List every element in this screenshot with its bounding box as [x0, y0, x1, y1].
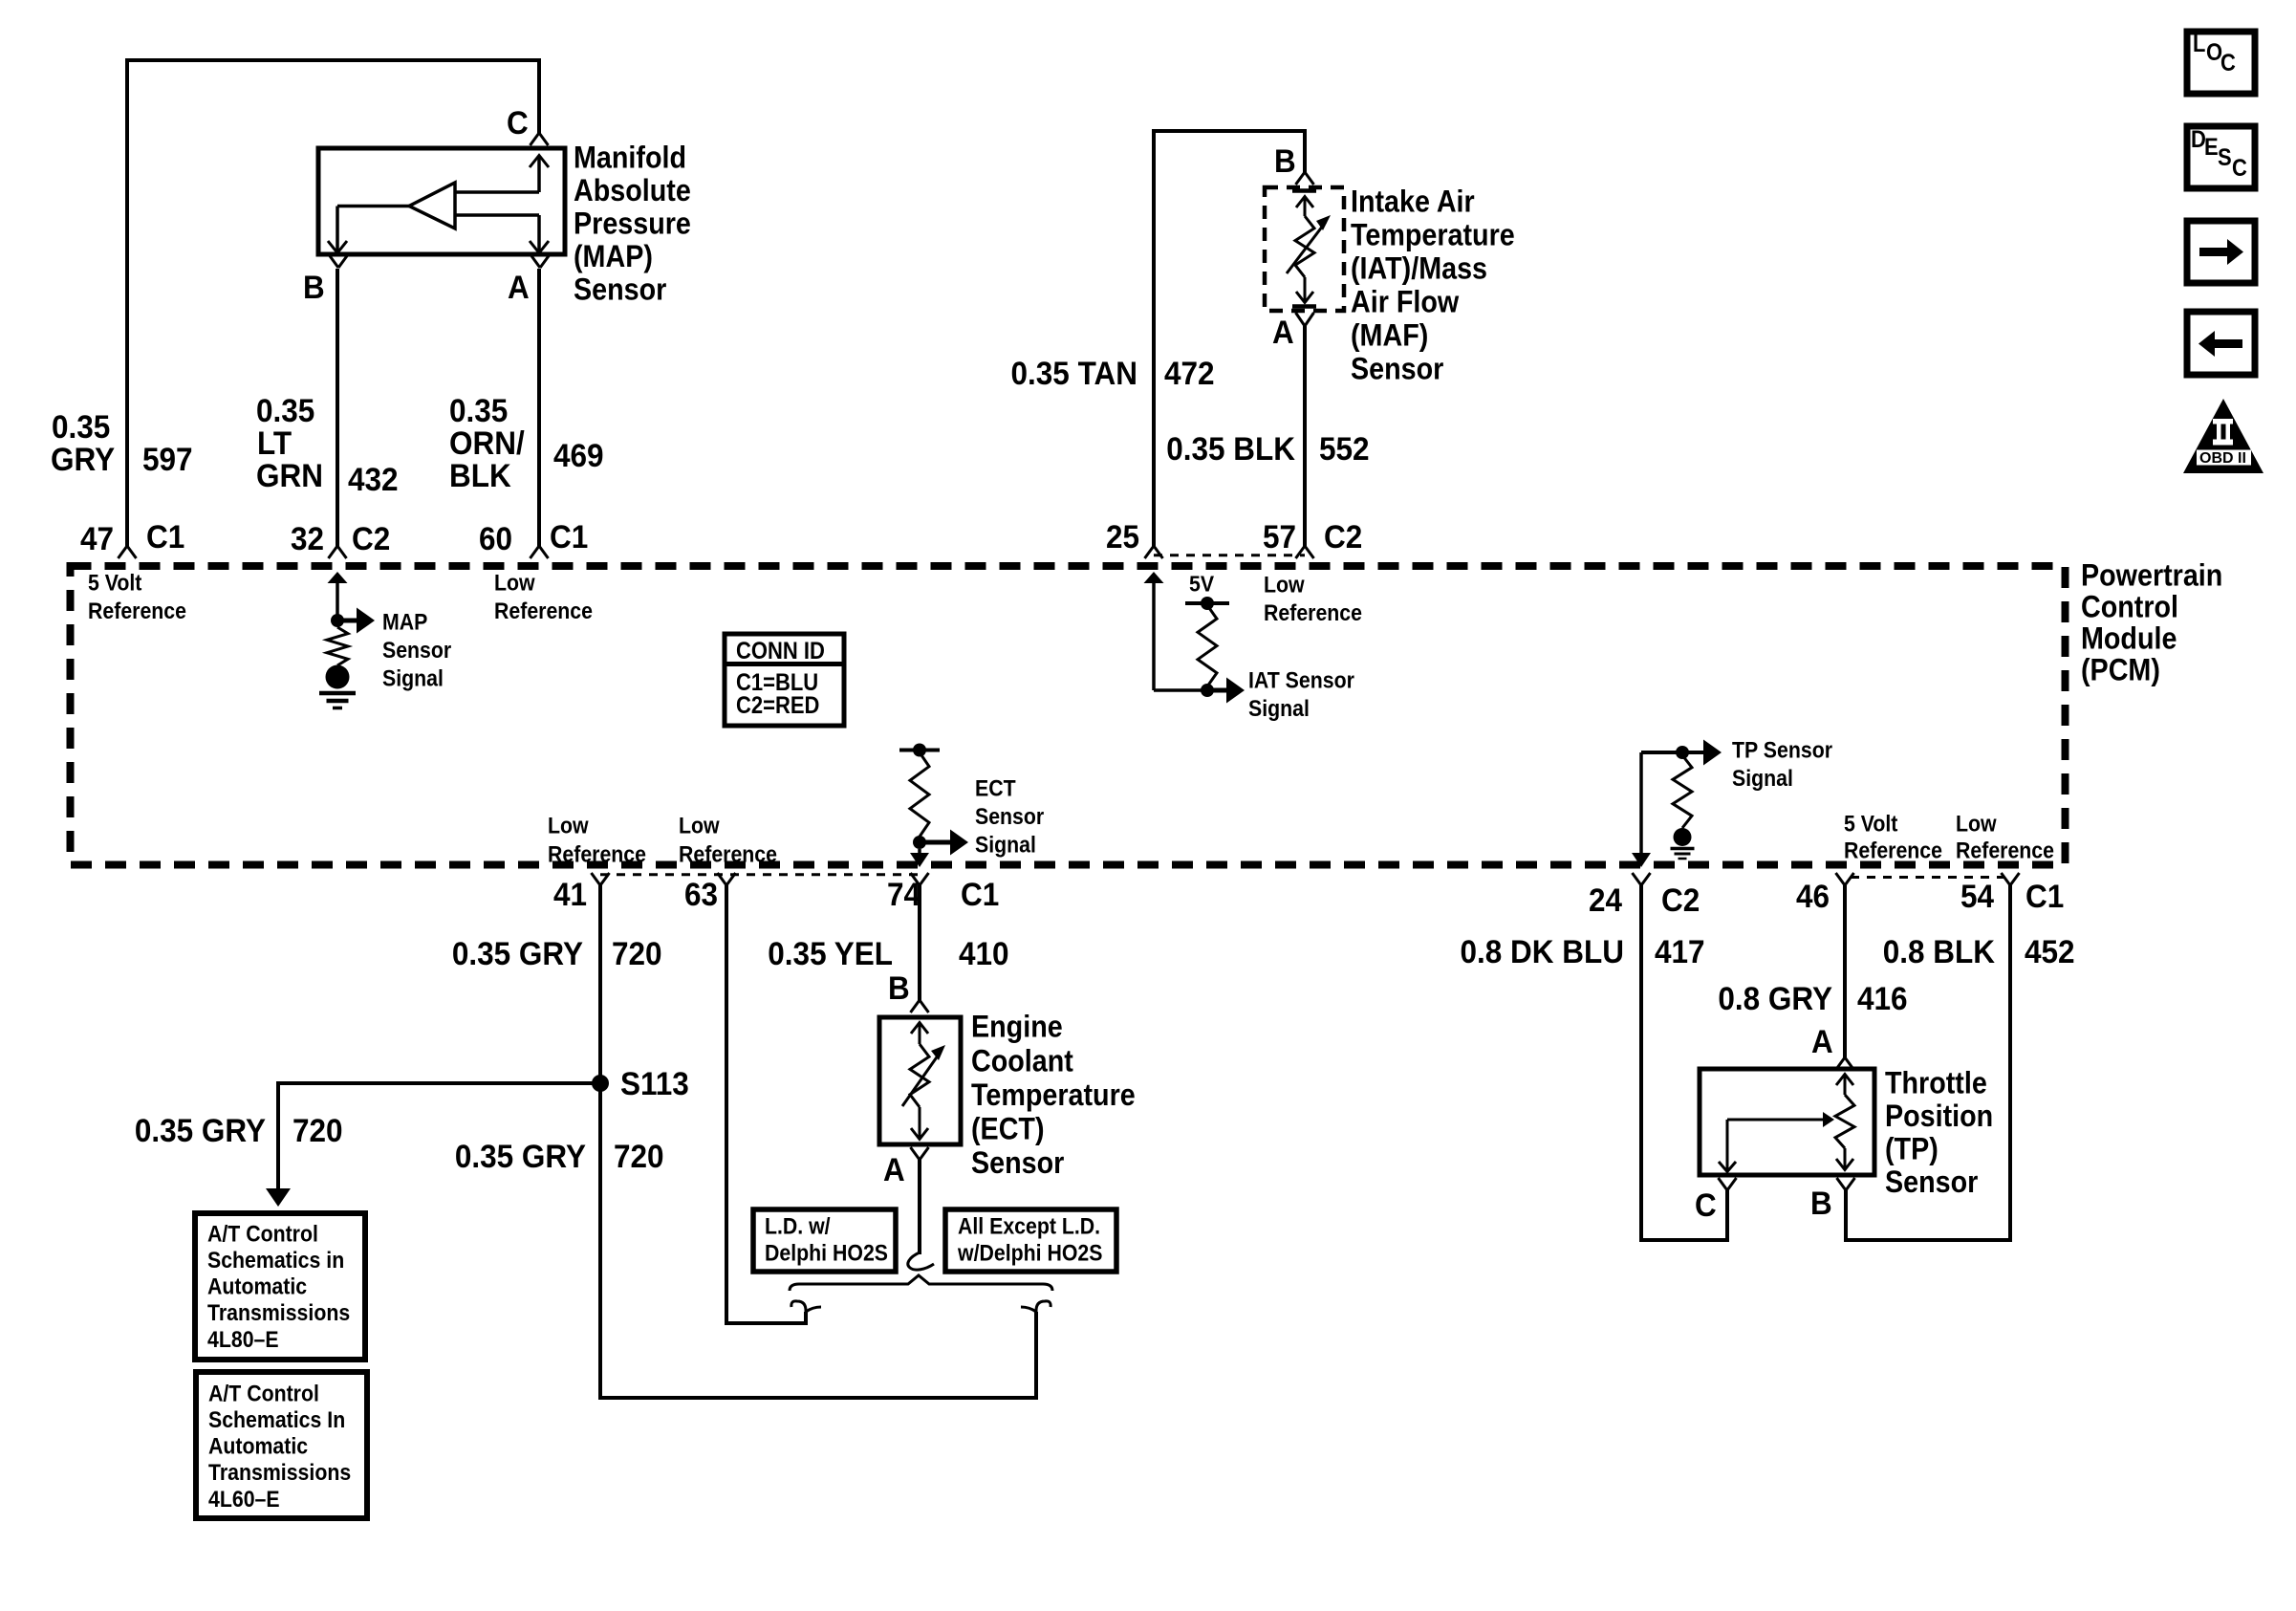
- svg-text:B: B: [303, 270, 325, 306]
- svg-text:60: 60: [479, 521, 512, 557]
- svg-text:469: 469: [553, 438, 604, 474]
- svg-text:C: C: [507, 105, 529, 142]
- svg-text:Low: Low: [679, 813, 720, 838]
- svg-text:Signal: Signal: [1732, 766, 1793, 792]
- svg-text:Engine: Engine: [971, 1010, 1063, 1044]
- svg-text:Air Flow: Air Flow: [1351, 285, 1459, 319]
- svg-text:C2: C2: [352, 521, 390, 557]
- svg-text:46: 46: [1796, 879, 1830, 915]
- svg-text:C: C: [1695, 1187, 1717, 1224]
- svg-text:432: 432: [348, 462, 399, 498]
- svg-text:(TP): (TP): [1885, 1132, 1939, 1166]
- svg-text:57: 57: [1263, 519, 1296, 555]
- svg-text:Low: Low: [548, 813, 589, 838]
- svg-text:5 Volt: 5 Volt: [1844, 811, 1897, 837]
- svg-text:0.35 BLK: 0.35 BLK: [1166, 431, 1295, 468]
- svg-text:BLK: BLK: [449, 458, 511, 494]
- svg-text:Signal: Signal: [975, 832, 1036, 858]
- svg-text:0.8 GRY: 0.8 GRY: [1718, 981, 1832, 1017]
- svg-text:Coolant: Coolant: [971, 1043, 1073, 1078]
- svg-text:C1: C1: [550, 519, 588, 555]
- svg-text:C2: C2: [1324, 519, 1362, 555]
- svg-text:552: 552: [1319, 431, 1370, 468]
- svg-text:0.35 GRY: 0.35 GRY: [135, 1113, 266, 1149]
- svg-text:C1: C1: [961, 877, 999, 913]
- svg-text:Reference: Reference: [1844, 838, 1942, 863]
- svg-text:0.8 DK BLU: 0.8 DK BLU: [1461, 934, 1625, 970]
- svg-text:Pressure: Pressure: [574, 207, 691, 241]
- svg-text:Throttle: Throttle: [1885, 1066, 1987, 1100]
- svg-text:Position: Position: [1885, 1099, 1993, 1133]
- svg-text:A/T Control: A/T Control: [207, 1221, 318, 1247]
- svg-text:Intake Air: Intake Air: [1351, 185, 1475, 219]
- svg-text:Temperature: Temperature: [971, 1078, 1136, 1112]
- svg-text:LT: LT: [257, 425, 292, 462]
- svg-text:S113: S113: [620, 1066, 689, 1102]
- svg-text:0.35 GRY: 0.35 GRY: [452, 936, 583, 972]
- svg-text:4L80–E: 4L80–E: [207, 1327, 279, 1353]
- svg-text:B: B: [1274, 143, 1296, 180]
- svg-text:720: 720: [612, 936, 662, 972]
- svg-text:OBD II: OBD II: [2199, 450, 2246, 467]
- svg-text:(MAP): (MAP): [574, 239, 653, 273]
- svg-text:0.8 BLK: 0.8 BLK: [1883, 934, 1996, 970]
- svg-text:Sensor: Sensor: [975, 804, 1045, 830]
- svg-text:0.35 TAN: 0.35 TAN: [1011, 356, 1138, 392]
- svg-text:74: 74: [887, 877, 921, 913]
- svg-text:41: 41: [553, 877, 587, 913]
- svg-text:MAP: MAP: [382, 609, 427, 635]
- svg-text:All Except L.D.: All Except L.D.: [958, 1213, 1100, 1239]
- svg-text:4L60–E: 4L60–E: [208, 1487, 280, 1513]
- svg-text:Control: Control: [2081, 590, 2178, 624]
- svg-text:TP Sensor: TP Sensor: [1732, 737, 1832, 763]
- svg-text:(IAT)/Mass: (IAT)/Mass: [1351, 251, 1487, 286]
- svg-text:Reference: Reference: [1264, 600, 1362, 626]
- svg-text:Reference: Reference: [1956, 838, 2054, 863]
- svg-text:A: A: [508, 270, 530, 306]
- svg-text:597: 597: [142, 442, 193, 478]
- svg-text:63: 63: [684, 877, 718, 913]
- svg-text:Automatic: Automatic: [207, 1274, 307, 1300]
- svg-text:GRN: GRN: [256, 458, 323, 494]
- svg-text:Temperature: Temperature: [1351, 218, 1515, 252]
- svg-text:Signal: Signal: [1248, 696, 1310, 722]
- svg-text:24: 24: [1589, 882, 1622, 919]
- svg-text:Sensor: Sensor: [1885, 1165, 1978, 1199]
- svg-text:C2=RED: C2=RED: [736, 692, 819, 719]
- svg-text:417: 417: [1655, 934, 1705, 970]
- svg-text:L.D. w/: L.D. w/: [765, 1213, 831, 1239]
- svg-text:54: 54: [1960, 879, 1994, 915]
- svg-text:Transmissions: Transmissions: [207, 1300, 350, 1326]
- svg-text:C1: C1: [2025, 879, 2064, 915]
- svg-text:32: 32: [291, 521, 324, 557]
- svg-text:B: B: [1810, 1186, 1832, 1222]
- svg-text:Signal: Signal: [382, 665, 444, 691]
- svg-text:IAT Sensor: IAT Sensor: [1248, 667, 1354, 693]
- svg-text:Sensor: Sensor: [1351, 352, 1443, 386]
- svg-text:5V: 5V: [1189, 571, 1215, 596]
- svg-text:410: 410: [959, 936, 1009, 972]
- svg-text:C1: C1: [146, 519, 184, 555]
- svg-text:720: 720: [292, 1113, 343, 1149]
- svg-text:0.35 GRY: 0.35 GRY: [455, 1139, 586, 1175]
- svg-text:Delphi HO2S: Delphi HO2S: [765, 1240, 888, 1266]
- svg-text:Module: Module: [2081, 621, 2177, 656]
- svg-text:Sensor: Sensor: [574, 272, 666, 307]
- svg-text:416: 416: [1857, 981, 1908, 1017]
- svg-text:720: 720: [614, 1139, 664, 1175]
- svg-text:0.35: 0.35: [52, 409, 110, 446]
- svg-text:Low: Low: [1264, 572, 1305, 598]
- svg-text:5 Volt: 5 Volt: [88, 570, 141, 596]
- svg-text:CONN ID: CONN ID: [736, 638, 825, 664]
- svg-text:w/Delphi HO2S: w/Delphi HO2S: [957, 1240, 1102, 1266]
- svg-text:A: A: [883, 1152, 905, 1188]
- svg-text:Powertrain: Powertrain: [2081, 558, 2222, 593]
- svg-text:Absolute: Absolute: [574, 173, 691, 207]
- svg-text:472: 472: [1164, 356, 1215, 392]
- svg-text:(PCM): (PCM): [2081, 653, 2160, 687]
- svg-text:Reference: Reference: [494, 599, 593, 624]
- svg-text:25: 25: [1106, 519, 1139, 555]
- svg-text:ECT: ECT: [975, 775, 1016, 801]
- svg-text:Automatic: Automatic: [208, 1434, 308, 1460]
- svg-text:E: E: [2204, 134, 2219, 161]
- svg-text:Transmissions: Transmissions: [208, 1460, 351, 1486]
- svg-text:Schematics in: Schematics in: [207, 1248, 344, 1274]
- svg-text:Manifold: Manifold: [574, 141, 686, 175]
- svg-text:GRY: GRY: [51, 442, 115, 478]
- svg-text:L: L: [2193, 31, 2205, 57]
- svg-text:Schematics In: Schematics In: [208, 1407, 345, 1433]
- svg-text:0.35 YEL: 0.35 YEL: [768, 936, 893, 972]
- svg-text:Sensor: Sensor: [971, 1145, 1064, 1180]
- svg-text:B: B: [888, 970, 910, 1007]
- svg-text:ORN/: ORN/: [449, 425, 525, 462]
- svg-text:Low: Low: [1956, 811, 1997, 837]
- svg-text:47: 47: [80, 521, 114, 557]
- svg-text:Reference: Reference: [88, 599, 186, 624]
- svg-text:Sensor: Sensor: [382, 638, 452, 664]
- svg-text:A/T Control: A/T Control: [208, 1381, 319, 1406]
- svg-text:C: C: [2232, 155, 2247, 182]
- svg-text:C2: C2: [1661, 882, 1700, 919]
- svg-text:Reference: Reference: [679, 841, 777, 867]
- svg-text:Low: Low: [494, 570, 535, 596]
- svg-text:0.35: 0.35: [449, 393, 508, 429]
- svg-text:S: S: [2218, 144, 2232, 171]
- svg-text:(ECT): (ECT): [971, 1112, 1045, 1146]
- svg-text:452: 452: [2025, 934, 2075, 970]
- svg-text:(MAF): (MAF): [1351, 318, 1428, 353]
- svg-text:A: A: [1272, 315, 1294, 351]
- svg-text:0.35: 0.35: [256, 393, 314, 429]
- svg-text:A: A: [1811, 1024, 1833, 1060]
- svg-text:C: C: [2220, 50, 2236, 76]
- svg-text:Reference: Reference: [548, 841, 646, 867]
